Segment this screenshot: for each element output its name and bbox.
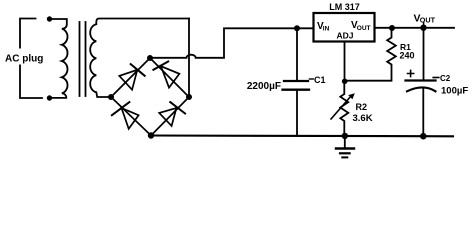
node ADJ junction [342, 79, 348, 85]
svg-text:IN: IN [323, 26, 330, 33]
wire bridge top vertex to LM317 VIN (hops over vertical) [150, 28, 314, 58]
node bridge bottom vertex [148, 132, 154, 138]
transformer core [80, 22, 86, 96]
bridge edge bottom-left [111, 97, 151, 136]
node C2 bottom junction [420, 133, 427, 140]
transformer T1 secondary winding [90, 19, 189, 98]
node R1 tap [389, 25, 395, 31]
svg-text:3.6K: 3.6K [353, 113, 373, 124]
bridge edge left-top [111, 58, 150, 97]
diode D2 (right to top) [153, 62, 179, 88]
svg-text:ADJ: ADJ [337, 30, 354, 40]
resistor R2 3.6K (variable) [331, 82, 373, 136]
wire LM317 VOUT output rail [375, 27, 455, 29]
capacitor C2 100uF [406, 28, 469, 137]
diode D1 (left to top) [119, 64, 144, 90]
svg-text:C2: C2 [440, 74, 451, 83]
svg-text:C1: C1 [314, 75, 326, 85]
svg-text:OUT: OUT [420, 16, 436, 25]
node bridge left vertex [108, 94, 114, 100]
node C1 tap [294, 25, 300, 31]
AC plug [4, 16, 52, 100]
wire LM317 ADJ pin [344, 42, 346, 82]
wire secondary-top to bridge right vertex [188, 19, 190, 98]
svg-text:OUT: OUT [357, 25, 371, 32]
label VOUT [414, 13, 436, 28]
ground [336, 136, 354, 158]
svg-text:LM 317: LM 317 [329, 2, 360, 12]
svg-text:2200µF: 2200µF [247, 81, 281, 92]
svg-text:R2: R2 [356, 102, 368, 112]
node bridge top vertex [147, 55, 153, 61]
svg-text:AC plug: AC plug [5, 54, 43, 65]
diode D3 (bottom to left) [112, 102, 139, 129]
wire bottom rail [151, 134, 453, 137]
node R2 bottom junction [342, 133, 348, 139]
svg-text:240: 240 [400, 51, 415, 61]
svg-text:100µF: 100µF [441, 86, 468, 97]
bridge edge right-bottom [151, 97, 189, 136]
diode D4 (bottom to right) [159, 102, 185, 126]
resistor R1 240 [345, 28, 415, 81]
bridge edge top-right [150, 58, 189, 97]
node VOUT tap [420, 25, 426, 31]
capacitor C1 [247, 28, 326, 136]
IC U1 LM317 regulator [314, 2, 375, 42]
node bridge right vertex [186, 94, 192, 100]
transformer T1 primary winding [50, 19, 68, 98]
